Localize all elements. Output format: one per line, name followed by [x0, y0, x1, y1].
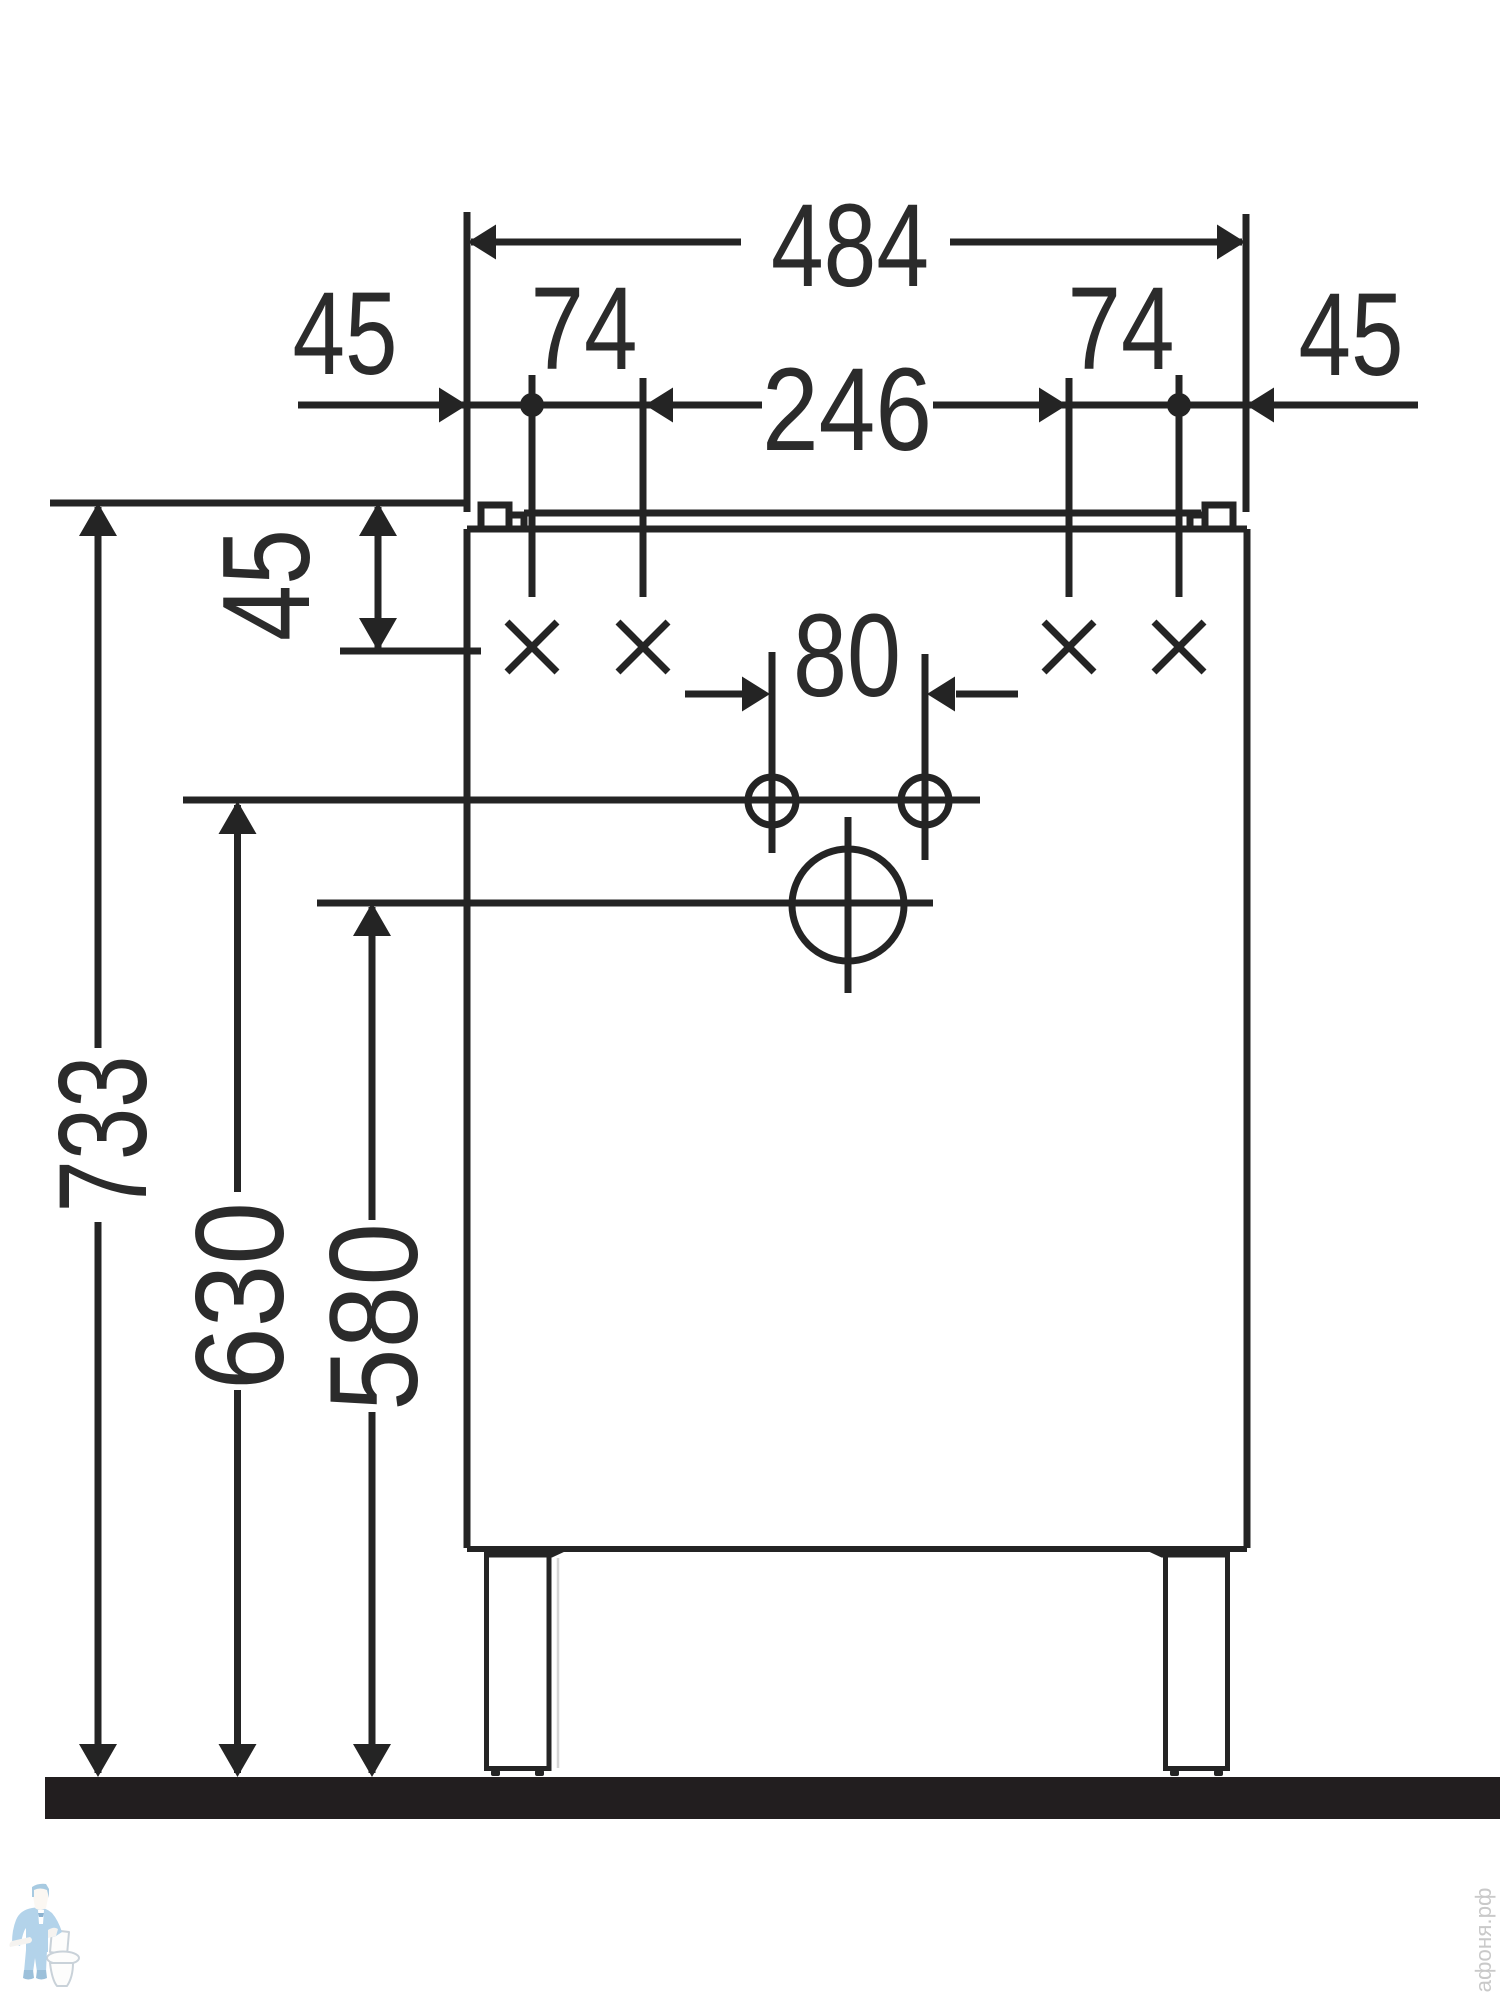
dim 80 right arrowhead: [927, 677, 955, 712]
dim 484 line right segment: [950, 239, 1242, 246]
dim 80 left arrowhead: [742, 677, 770, 712]
plumber logo bottom left: [9, 1884, 79, 1986]
hole extension line 3: [1066, 378, 1073, 597]
cabinet top edge: [467, 526, 1247, 533]
plumber legs: [24, 1950, 47, 1972]
rail left tab: [481, 505, 509, 529]
svg-text:630: 630: [171, 1202, 310, 1390]
rail top line: [524, 510, 1201, 517]
row2 74 dot left: [520, 393, 544, 417]
svg-text:45: 45: [293, 268, 398, 400]
svg-text:484: 484: [771, 180, 929, 312]
580 reference line through drain hole: [317, 900, 933, 907]
733 dim shaft lower: [95, 1222, 102, 1773]
drain hole vertical centerline: [845, 817, 852, 993]
faucet hole circle left: [748, 777, 796, 825]
row2 74 dot right: [1167, 393, 1191, 417]
drain hole circle: [792, 849, 904, 961]
x mark 2: [618, 622, 668, 672]
dim 484 left arrowhead: [468, 225, 496, 260]
580 bottom arrowhead: [353, 1744, 391, 1777]
dim 80 left extension line: [769, 652, 776, 853]
svg-text:80: 80: [793, 590, 901, 722]
dim 80 left tail: [685, 691, 744, 698]
row2 246 right arrowhead: [1039, 388, 1067, 423]
plumber right hand on tank: [48, 1928, 58, 1938]
toilet tank: [50, 1930, 69, 1955]
dim 80 right tail: [956, 691, 1018, 698]
left leg outline: [487, 1554, 550, 1769]
dim 484 left extension line: [464, 212, 471, 512]
rail right step: [1190, 515, 1205, 529]
45 bottom reference line: [340, 648, 481, 655]
right leg foot 2: [1214, 1770, 1223, 1776]
dim 484 line left segment: [471, 239, 741, 246]
733 bottom arrowhead: [79, 1744, 117, 1777]
svg-text:580: 580: [305, 1223, 444, 1411]
cabinet left edge: [464, 529, 471, 1548]
x mark 3: [1044, 622, 1094, 672]
hole extension line 1: [529, 375, 536, 597]
45 vertical dim shaft: [375, 507, 382, 648]
630 dim shaft lower: [234, 1390, 241, 1773]
plumber hair: [32, 1884, 49, 1898]
45 vertical top arrowhead: [359, 503, 397, 536]
630 reference line through faucet holes: [183, 797, 980, 804]
svg-text:733: 733: [34, 1056, 173, 1213]
rail left step: [509, 515, 524, 529]
733 top reference line: [50, 500, 470, 507]
row2 right 45 arrowhead: [1246, 388, 1274, 423]
left leg foot 2: [535, 1770, 544, 1776]
hole extension line 2: [640, 378, 647, 597]
left leg hidden edge: [557, 1558, 560, 1768]
630 dim shaft upper: [234, 805, 241, 1192]
630 bottom arrowhead: [219, 1744, 257, 1777]
plumber shirt and bow tie: [38, 1910, 44, 1924]
580 dim shaft lower: [369, 1412, 376, 1773]
plumber shoes: [23, 1970, 34, 1980]
toilet seat rim: [47, 1952, 79, 1965]
svg-text:246: 246: [762, 344, 932, 476]
svg-text:афоня.рф: афоня.рф: [1471, 1888, 1496, 1993]
x mark 1: [507, 622, 557, 672]
cabinet right edge: [1244, 529, 1251, 1548]
right leg foot 1: [1170, 1770, 1179, 1776]
svg-text:45: 45: [1299, 269, 1404, 401]
45 vertical bottom arrowhead: [359, 618, 397, 651]
svg-text:74: 74: [531, 263, 638, 395]
dim 484 right arrowhead: [1217, 225, 1245, 260]
left leg foot 1: [491, 1770, 500, 1776]
dim 80 right extension line: [922, 654, 929, 860]
row2 left 45 arrowhead: [439, 388, 467, 423]
svg-text:45: 45: [198, 529, 336, 641]
plumber left hand and wrench: [9, 1937, 32, 1947]
toilet pedestal: [50, 1963, 73, 1986]
hole extension line 4: [1176, 375, 1183, 597]
x mark 4: [1154, 622, 1204, 672]
faucet hole circle right: [901, 777, 949, 825]
580 dim shaft upper: [369, 907, 376, 1220]
floor bar: [45, 1777, 1500, 1819]
630 top arrowhead: [219, 801, 257, 834]
row2 dim line right segment: [933, 402, 1418, 409]
svg-text:74: 74: [1068, 263, 1175, 395]
plumber head: [33, 1888, 48, 1910]
dim 484 right extension line: [1243, 214, 1250, 512]
cabinet bottom edge: [467, 1546, 1247, 1552]
left leg wedge: [484, 1551, 566, 1558]
row2 dim line left segment: [298, 402, 762, 409]
733 top arrowhead: [79, 503, 117, 536]
right leg outline: [1166, 1554, 1228, 1769]
733 dim shaft upper: [95, 507, 102, 1048]
rail right tab: [1205, 505, 1233, 529]
580 top arrowhead: [353, 903, 391, 936]
row2 246 left arrowhead: [645, 388, 673, 423]
plumber jacket body: [12, 1908, 62, 1952]
right leg wedge: [1148, 1551, 1230, 1558]
